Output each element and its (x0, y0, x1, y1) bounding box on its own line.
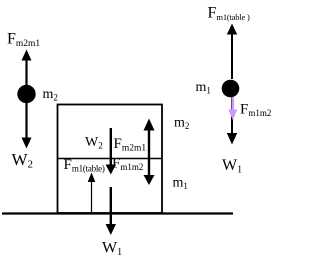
W_2 arrow inside box (down) (106, 128, 116, 175)
arrow F_m1(table) up (right diagram) (227, 24, 237, 80)
W_1 arrow down (right diagram, black) (227, 97, 237, 145)
divider line between m2 (top) and m1 (bottom) (57, 158, 163, 160)
label F_m2m1 (left free-body diagram) (7, 31, 40, 50)
box m1+m2 outline (middle diagram) (58, 105, 163, 214)
double arrow shaft F_m2m1 up / F_m1m2 down (right side of box) (144, 119, 155, 186)
W_1 arrow (down, through table line) (106, 187, 116, 235)
mass m1 ball (right diagram) (222, 80, 240, 98)
thin arrow F_m1(table) up inside box (88, 173, 96, 213)
force arrow F_m2m1 up / W_2 down (left diagram shaft) (22, 50, 32, 149)
mass m2 ball (left diagram) (17, 85, 35, 103)
table surface line (2, 212, 233, 214)
F_m1m2 arrow down (right diagram, purple overlay) (228, 97, 237, 120)
